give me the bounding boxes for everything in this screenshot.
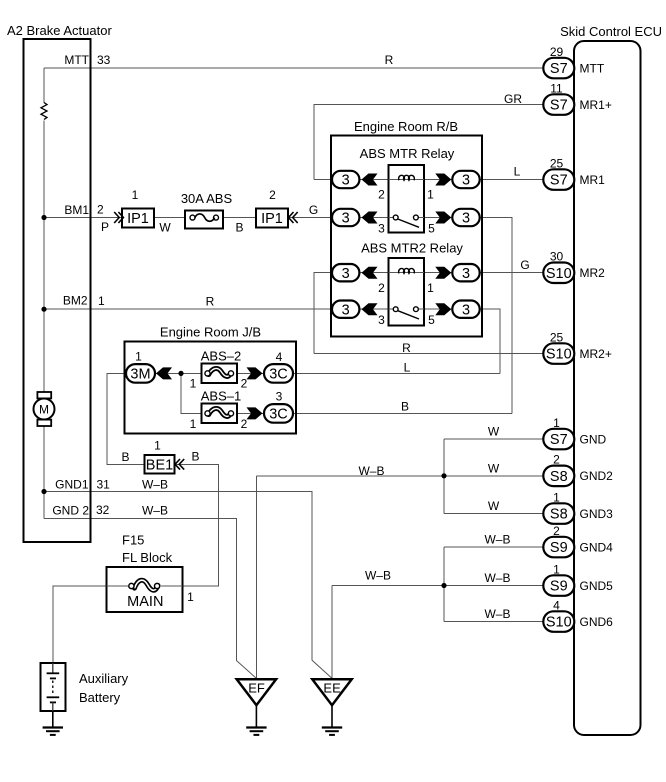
arrow relay2 coil right xyxy=(435,267,451,279)
arrow relay1 switch right xyxy=(435,212,451,224)
svg-text:2: 2 xyxy=(269,188,276,202)
svg-text:4: 4 xyxy=(276,350,283,364)
svg-text:3C: 3C xyxy=(269,407,288,423)
connector 3 relay2 coil right xyxy=(452,264,479,281)
svg-text:1: 1 xyxy=(427,188,434,202)
svg-text:GND2: GND2 xyxy=(580,469,614,483)
wire relay2 switch right L riser xyxy=(479,309,500,373)
arrow relay1 switch left xyxy=(362,212,378,224)
svg-text:5: 5 xyxy=(428,222,435,236)
connector 3C 4 xyxy=(264,364,293,383)
connector BE1 xyxy=(145,455,175,474)
wire GND4 W-B xyxy=(444,546,543,548)
svg-text:S7: S7 xyxy=(550,98,568,114)
connector S7 25 MR1 xyxy=(543,169,574,190)
svg-text:33: 33 xyxy=(97,53,111,67)
ground point EF xyxy=(237,679,276,705)
motor M1 brush top xyxy=(37,392,51,398)
Engine Room J/B box xyxy=(125,342,297,434)
wire GND1 diagonal into EE xyxy=(312,660,332,678)
svg-text:GND: GND xyxy=(580,432,607,446)
connector 3 relay1 switch right xyxy=(452,209,479,226)
svg-text:G: G xyxy=(309,203,318,217)
arrow relay2 coil left xyxy=(362,267,378,279)
wire MTT R xyxy=(44,67,543,69)
svg-text:G: G xyxy=(520,258,529,272)
connector S7 11 MR1+ xyxy=(543,94,574,115)
svg-text:30: 30 xyxy=(550,250,564,264)
svg-text:1: 1 xyxy=(553,562,560,576)
connector S9 2 GND4 xyxy=(543,537,574,558)
connector S8 2 GND2 xyxy=(543,466,574,487)
wire GND W xyxy=(444,438,543,440)
svg-text:A2 Brake Actuator: A2 Brake Actuator xyxy=(7,23,112,38)
svg-text:B: B xyxy=(235,221,243,235)
wire GND1 row xyxy=(44,492,312,661)
svg-text:MR2+: MR2+ xyxy=(580,347,612,361)
svg-text:1: 1 xyxy=(154,439,161,453)
svg-text:P: P xyxy=(101,220,109,234)
svg-text:L: L xyxy=(404,361,411,375)
wire fuse to IP1 2 xyxy=(223,217,256,219)
svg-text:1: 1 xyxy=(190,417,197,431)
svg-text:25: 25 xyxy=(550,156,564,170)
wire relay1 switch right B riser xyxy=(479,218,512,414)
wire relay1 row2 internal xyxy=(359,217,394,219)
svg-text:2: 2 xyxy=(553,453,560,467)
svg-text:2: 2 xyxy=(378,281,385,295)
svg-text:W–B: W–B xyxy=(358,464,384,478)
svg-text:1: 1 xyxy=(135,350,142,364)
svg-text:31: 31 xyxy=(97,478,111,492)
svg-text:Skid Control ECU: Skid Control ECU xyxy=(560,24,662,39)
svg-text:BM1: BM1 xyxy=(64,203,89,217)
wire GND 2 row xyxy=(44,518,236,660)
battery Auxiliary xyxy=(40,663,65,711)
svg-text:2: 2 xyxy=(553,524,560,538)
svg-text:IP1: IP1 xyxy=(127,211,149,227)
RELAY 1 xyxy=(332,146,480,236)
svg-text:3: 3 xyxy=(462,266,470,282)
chevron out of IP1 2 xyxy=(289,212,298,223)
svg-text:R: R xyxy=(402,341,411,355)
connector IP1 2 xyxy=(256,209,288,228)
svg-text:GR: GR xyxy=(504,92,522,106)
svg-text:B: B xyxy=(121,450,129,464)
chevron out of BE1 xyxy=(175,459,184,470)
svg-text:ABS–1: ABS–1 xyxy=(201,388,241,403)
connector 3M xyxy=(126,364,155,383)
wire EF center riser xyxy=(255,476,257,679)
wire EE riser xyxy=(331,586,333,679)
svg-text:25: 25 xyxy=(550,330,564,344)
connector 3 relay1 switch left xyxy=(332,209,359,226)
wire BM2 row xyxy=(44,308,332,310)
svg-text:W–B: W–B xyxy=(365,569,391,583)
svg-text:1: 1 xyxy=(187,590,194,604)
wire GND2 W-B long xyxy=(256,475,543,477)
wire relay2 row1 internal xyxy=(359,272,388,274)
svg-text:GND5: GND5 xyxy=(580,579,614,593)
fuse 30A ABS xyxy=(185,211,223,229)
svg-text:ABS MTR2 Relay: ABS MTR2 Relay xyxy=(361,241,463,256)
ECU CONNECTORS xyxy=(543,45,613,632)
WIRE LABELS xyxy=(101,53,530,621)
svg-text:3M: 3M xyxy=(130,367,150,383)
relay2 switch contacts xyxy=(393,307,398,312)
svg-text:M: M xyxy=(39,403,49,417)
relay2 switch blade xyxy=(398,311,419,319)
svg-text:BM2: BM2 xyxy=(63,294,88,308)
connector 3 relay2 coil left xyxy=(332,264,359,281)
EF GROUND xyxy=(237,679,276,735)
wire B row xyxy=(294,412,513,414)
svg-text:S9: S9 xyxy=(550,579,568,595)
relay1 switch contacts xyxy=(393,215,398,220)
connector S7 1 GND xyxy=(543,429,574,450)
arrow to 3C 4 xyxy=(247,367,263,379)
svg-text:MR1+: MR1+ xyxy=(580,98,612,112)
BM1 CONNECTOR ROW xyxy=(114,188,298,229)
svg-text:W–B: W–B xyxy=(142,504,168,518)
svg-text:3C: 3C xyxy=(269,367,288,383)
svg-text:1: 1 xyxy=(98,294,105,308)
svg-text:2: 2 xyxy=(241,417,248,431)
BATTERY xyxy=(40,663,128,735)
svg-text:EE: EE xyxy=(323,681,341,696)
svg-text:S10: S10 xyxy=(546,266,572,282)
svg-text:Battery: Battery xyxy=(79,690,121,705)
connector IP1 1 xyxy=(122,209,154,228)
arrow relay1 coil right xyxy=(435,174,451,186)
svg-text:R: R xyxy=(385,53,394,67)
wire G to relay1 switch xyxy=(288,217,332,219)
node GND2 junction xyxy=(441,473,446,478)
svg-text:W: W xyxy=(488,499,500,513)
node JB junction xyxy=(178,371,183,376)
connector S10 25 MR2+ xyxy=(543,343,574,364)
svg-text:S8: S8 xyxy=(550,469,568,485)
node BM2 junction xyxy=(41,307,46,312)
relay box ABS MTR2 xyxy=(389,258,425,326)
ground battery xyxy=(52,711,54,727)
svg-text:3: 3 xyxy=(462,302,470,318)
svg-text:W–B: W–B xyxy=(142,478,168,492)
svg-text:1: 1 xyxy=(190,377,197,391)
connector S10 4 GND6 xyxy=(543,611,574,632)
svg-text:2: 2 xyxy=(97,203,104,217)
wire ABS-1 fuse to 3C xyxy=(237,412,264,414)
svg-text:32: 32 xyxy=(96,503,110,517)
svg-text:3: 3 xyxy=(462,211,470,227)
svg-text:IP1: IP1 xyxy=(261,211,283,227)
wire BM1 row xyxy=(44,217,122,219)
motor M1 xyxy=(34,399,55,420)
svg-text:30A ABS: 30A ABS xyxy=(181,191,233,206)
fuse MAIN box xyxy=(106,567,182,612)
ACTUATOR INTERNALS xyxy=(34,53,111,518)
wire L row xyxy=(294,372,501,374)
wire relay1 coil left feed xyxy=(314,179,332,181)
svg-text:Auxiliary: Auxiliary xyxy=(79,671,129,686)
node GND1 junction xyxy=(41,489,46,494)
svg-text:29: 29 xyxy=(550,45,564,59)
node BM1 junction xyxy=(41,215,46,220)
relay1 coil xyxy=(399,175,415,180)
wire GND4-6 riser xyxy=(443,547,445,622)
connector 3 relay1 coil right xyxy=(452,171,479,188)
svg-text:1: 1 xyxy=(132,188,139,202)
connector S9 1 GND5 xyxy=(543,575,574,596)
wire GND5 W-B long xyxy=(332,585,543,587)
F15 FL BLOCK xyxy=(106,533,194,613)
connector 3 relay1 coil left xyxy=(332,171,359,188)
BE1 xyxy=(145,439,185,474)
connector 3 relay2 switch right xyxy=(452,301,479,318)
wire relay2 coil left feed R riser xyxy=(314,273,332,354)
svg-text:MAIN: MAIN xyxy=(127,594,163,610)
A2 Brake Actuator box xyxy=(24,39,91,542)
wire GND 2 diagonal into EF xyxy=(236,660,256,678)
wire MR2 G xyxy=(479,272,543,274)
svg-text:S10: S10 xyxy=(546,615,572,631)
JB INTERNALS xyxy=(126,349,293,432)
wire 3M left to BE1 xyxy=(107,373,145,464)
wire R row MR2+ xyxy=(314,353,543,355)
svg-text:W–B: W–B xyxy=(484,607,510,621)
Skid Control ECU box xyxy=(574,41,641,735)
svg-text:MTT: MTT xyxy=(64,53,89,67)
resistor xyxy=(41,103,47,120)
svg-text:MR1: MR1 xyxy=(580,173,606,187)
svg-text:3: 3 xyxy=(342,173,350,189)
svg-text:11: 11 xyxy=(550,81,563,95)
svg-text:3: 3 xyxy=(342,266,350,282)
relay1 internal wires xyxy=(389,179,425,181)
svg-text:S7: S7 xyxy=(550,432,568,448)
svg-text:W–B: W–B xyxy=(484,533,510,547)
node GND5 junction xyxy=(441,583,446,588)
svg-text:R: R xyxy=(206,295,215,309)
relay box ABS MTR xyxy=(389,165,425,233)
wire 3M to ABS-2 fuse xyxy=(155,372,201,374)
chevron into IP1 1 xyxy=(114,212,123,223)
svg-text:ABS MTR Relay: ABS MTR Relay xyxy=(360,146,455,161)
svg-text:W: W xyxy=(488,461,500,475)
svg-text:1: 1 xyxy=(427,281,434,295)
svg-text:BE1: BE1 xyxy=(146,458,173,474)
wire BE1 right riser to F15 xyxy=(175,464,219,586)
svg-text:W: W xyxy=(159,221,171,235)
wire MR1 L xyxy=(479,179,543,181)
arrow after 3M xyxy=(156,367,172,379)
svg-text:FL Block: FL Block xyxy=(122,550,173,565)
wire F15 left to battery xyxy=(53,586,107,663)
ground point EE xyxy=(312,679,351,705)
svg-text:GND4: GND4 xyxy=(580,540,614,554)
arrow relay1 coil left xyxy=(362,174,378,186)
connector 3 relay2 switch left xyxy=(332,301,359,318)
actuator inner wire xyxy=(43,68,45,103)
connector S10 30 MR2 xyxy=(543,263,574,284)
svg-text:3: 3 xyxy=(276,390,283,404)
svg-text:B: B xyxy=(401,400,409,414)
svg-text:5: 5 xyxy=(428,313,435,327)
relay2 coil xyxy=(399,269,415,274)
connector 3C 3 xyxy=(264,404,293,423)
svg-text:3: 3 xyxy=(462,173,470,189)
svg-text:3: 3 xyxy=(378,222,385,236)
svg-text:3: 3 xyxy=(342,211,350,227)
svg-text:2: 2 xyxy=(241,377,248,391)
wire MR1+ GR xyxy=(314,105,543,180)
svg-text:ABS–2: ABS–2 xyxy=(201,349,241,364)
arrow relay2 switch right xyxy=(435,303,451,315)
wire JB riser to ABS-1 xyxy=(181,373,201,413)
relay1 switch blade xyxy=(398,219,419,227)
svg-text:L: L xyxy=(514,165,521,179)
relay2 internal wires xyxy=(389,272,425,274)
RELAY 2 xyxy=(332,241,480,328)
svg-text:MR2: MR2 xyxy=(580,266,606,280)
svg-text:GND6: GND6 xyxy=(580,615,614,629)
connector S8 1 GND3 xyxy=(543,503,574,524)
wire ABS-2 fuse to 3C xyxy=(237,372,264,374)
svg-text:3: 3 xyxy=(378,313,385,327)
svg-text:GND1: GND1 xyxy=(55,478,89,492)
svg-text:S10: S10 xyxy=(546,347,572,363)
wire relay2 row2 internal xyxy=(359,308,394,310)
svg-text:4: 4 xyxy=(553,598,560,612)
svg-text:S7: S7 xyxy=(550,61,568,77)
wire GND6 W-B xyxy=(444,621,543,623)
svg-text:B: B xyxy=(191,450,199,464)
svg-text:S8: S8 xyxy=(550,507,568,523)
EE GROUND xyxy=(312,679,351,735)
svg-text:2: 2 xyxy=(378,188,385,202)
wire GND riser xyxy=(443,439,445,514)
svg-text:Engine Room J/B: Engine Room J/B xyxy=(160,325,261,340)
arrow to 3C 3 xyxy=(247,407,263,419)
arrow relay2 switch left xyxy=(362,303,378,315)
Engine Room R/B box xyxy=(331,136,482,337)
svg-text:1: 1 xyxy=(553,416,560,430)
wire GND3 W xyxy=(444,513,543,515)
svg-text:1: 1 xyxy=(553,490,560,504)
svg-text:GND 2: GND 2 xyxy=(52,504,89,518)
svg-text:W: W xyxy=(488,425,500,439)
svg-text:S9: S9 xyxy=(550,540,568,556)
motor M1 brush bottom xyxy=(37,420,51,426)
svg-text:GND3: GND3 xyxy=(580,507,614,521)
connector S7 29 MTT xyxy=(543,58,574,79)
wire relay1 row1 internal xyxy=(359,179,388,181)
svg-text:F15: F15 xyxy=(122,533,144,548)
wire BM1 IP1 to fuse xyxy=(154,217,185,219)
svg-text:Engine Room R/B: Engine Room R/B xyxy=(354,119,458,134)
svg-text:EF: EF xyxy=(248,681,265,696)
svg-text:S7: S7 xyxy=(550,173,568,189)
svg-text:W–B: W–B xyxy=(484,571,510,585)
svg-text:MTT: MTT xyxy=(580,61,605,75)
svg-text:3: 3 xyxy=(342,302,350,318)
